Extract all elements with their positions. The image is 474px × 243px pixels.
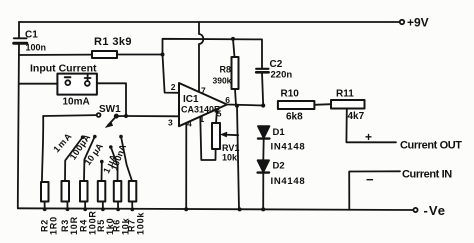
label range 10uA <box>82 141 105 167</box>
wire pin 5 stub to RV1 top <box>216 110 217 124</box>
resistor R5 <box>98 181 106 202</box>
resistor R10 <box>278 101 331 109</box>
resistor R1 <box>92 51 117 58</box>
capacitor C2 <box>256 69 268 73</box>
wire pin 4 down to rail <box>185 123 187 209</box>
wire left rail upper (above C1) <box>18 22 20 37</box>
label R3 10R <box>60 216 79 235</box>
node rail pin4 <box>184 207 188 211</box>
wire output pin6 to node <box>227 105 263 106</box>
svg-text:10R: 10R <box>69 216 79 235</box>
svg-text:+9V: +9V <box>407 16 429 30</box>
svg-text:R11: R11 <box>336 89 354 100</box>
node output network junction <box>261 103 265 107</box>
svg-text:2: 2 <box>171 82 176 92</box>
svg-text:6k8: 6k8 <box>286 112 303 123</box>
meter M1 box <box>57 74 97 95</box>
wire R2 to SW1 contact 1 <box>43 114 96 117</box>
svg-text:R8: R8 <box>220 65 232 75</box>
svg-text:C2: C2 <box>270 59 283 70</box>
label range 1uA <box>101 152 119 174</box>
node SW1 contact 1 <box>97 113 101 117</box>
svg-text:100n: 100n <box>26 43 47 53</box>
svg-text:+: + <box>365 130 372 144</box>
wire R1 right to node A <box>117 54 163 56</box>
wire pin 1 down then right to RV1 bottom <box>200 118 215 161</box>
label R5 1k0 <box>96 218 115 235</box>
label R2 1R0 <box>40 216 59 235</box>
svg-text:10k: 10k <box>222 153 238 163</box>
svg-text:Current IN: Current IN <box>402 169 452 181</box>
wire R1 left <box>19 54 92 56</box>
potentiometer RV1 <box>212 123 220 149</box>
label range 100uA <box>68 132 93 162</box>
wire C2 bottom to R10 node <box>262 72 263 105</box>
switch SW1 wiper <box>114 114 119 119</box>
svg-text:390k: 390k <box>213 76 232 86</box>
wire top +9V rail <box>19 21 400 23</box>
svg-text:10mA: 10mA <box>63 97 90 108</box>
node rail diode <box>261 207 265 211</box>
resistor R3 <box>62 181 70 202</box>
node R8 top junction <box>231 37 235 41</box>
resistor R8 <box>232 39 239 106</box>
svg-text:1: 1 <box>200 114 205 124</box>
svg-text:6: 6 <box>225 95 230 105</box>
resistor R11 <box>331 100 365 109</box>
svg-text:4k7: 4k7 <box>348 111 365 122</box>
label R6 10k <box>112 217 131 235</box>
svg-text:D1: D1 <box>273 127 286 138</box>
switch contact 4 lead from R5 <box>101 163 103 181</box>
switch contact 6 lead from R7 <box>121 138 132 181</box>
op-amp IC1 triangle <box>179 83 227 126</box>
svg-text:1R0: 1R0 <box>49 216 59 235</box>
svg-text:R1 3k9: R1 3k9 <box>94 36 132 48</box>
resistor R4 <box>80 181 88 202</box>
diode D1 <box>258 126 269 138</box>
wire between diodes <box>262 139 264 160</box>
wire bottom -Ve rail <box>18 208 414 210</box>
resistor R6 <box>114 181 122 202</box>
svg-text:5: 5 <box>217 109 222 119</box>
wire D2 to rail <box>262 173 264 210</box>
svg-text:IC1: IC1 <box>183 94 199 105</box>
switch contact 3 lead from R4 <box>84 138 94 182</box>
wire R2 lead <box>42 116 43 182</box>
node output dot <box>235 104 239 108</box>
svg-text:-Ve: -Ve <box>424 203 447 218</box>
svg-text:3: 3 <box>168 118 173 128</box>
wire SW1 junction to pin 3 <box>126 115 179 117</box>
svg-text:4: 4 <box>187 119 192 129</box>
svg-text:IN4148: IN4148 <box>271 176 306 187</box>
wire node A down to pin 2 <box>163 55 180 93</box>
label R4 100R <box>79 210 98 235</box>
svg-text:Current OUT: Current OUT <box>400 140 462 152</box>
svg-text:Input Current: Input Current <box>30 63 97 75</box>
node A junction R1/pin2 <box>161 53 165 57</box>
node rail RV line <box>238 207 242 211</box>
svg-text:100k: 100k <box>136 212 146 235</box>
svg-text:−: − <box>366 172 374 187</box>
svg-text:220n: 220n <box>271 70 293 81</box>
wire pin7 to +9V with hop over feedback line <box>199 22 203 92</box>
resistor R7 <box>129 181 137 202</box>
svg-text:CA3140E: CA3140E <box>181 105 220 115</box>
svg-text:7: 7 <box>201 86 206 96</box>
svg-text:SW1: SW1 <box>99 104 121 115</box>
label range 100nA <box>109 142 128 171</box>
wire node A up and over to C2 <box>163 39 263 69</box>
label R7 100k <box>127 212 146 235</box>
node +9V terminal <box>400 20 404 24</box>
svg-text:C1: C1 <box>25 30 38 41</box>
svg-text:R10: R10 <box>281 89 300 100</box>
capacitor C1 <box>14 38 27 43</box>
svg-text:IN4148: IN4148 <box>271 142 306 153</box>
resistor R2 <box>41 182 49 202</box>
node SW1 junction <box>124 114 128 118</box>
wire Current IN <box>349 171 400 209</box>
wire meter to SW1 junction <box>97 83 126 116</box>
wire output node down to -Ve rail <box>237 106 239 210</box>
switch contact 5 lead from R6 <box>111 148 117 181</box>
label range 1mA <box>51 130 74 154</box>
svg-text:D2: D2 <box>273 161 285 172</box>
wire R11 down to Current OUT <box>346 109 396 143</box>
meter terminal + <box>85 81 90 86</box>
wire left rail lower (below C1 to bottom rail) <box>18 43 19 208</box>
wire RV1 wiper arrow <box>224 134 238 137</box>
node -Ve terminal <box>413 208 417 212</box>
meter terminal - <box>65 80 70 85</box>
wire left rail to meter <box>19 83 57 85</box>
diode D2 <box>258 160 269 172</box>
svg-text:RV1: RV1 <box>222 143 239 153</box>
switch contact 2 lead from R3 <box>65 138 82 181</box>
